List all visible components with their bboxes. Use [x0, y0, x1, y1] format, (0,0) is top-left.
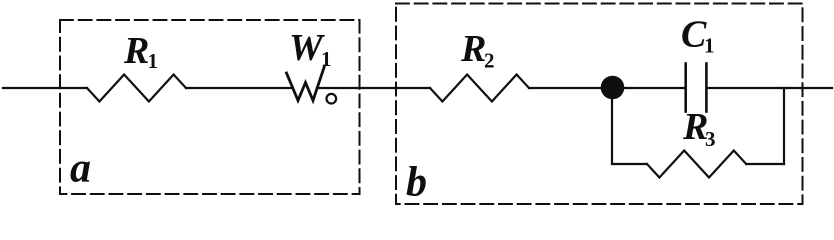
wire R1 to W1 [186, 87, 293, 89]
svg-text:3: 3 [705, 127, 716, 151]
capacitor C1 right plate [705, 64, 708, 112]
resistor R2 [430, 75, 529, 102]
svg-text:b: b [406, 160, 427, 206]
capacitor C1 left plate [684, 64, 687, 112]
svg-text:1: 1 [704, 34, 715, 58]
wire node to C1 [613, 87, 685, 89]
svg-text:2: 2 [484, 49, 495, 73]
Warburg element W1 [287, 66, 325, 101]
svg-text:1: 1 [321, 47, 332, 71]
node junction dot [601, 76, 625, 100]
dashed box a [60, 20, 360, 194]
wire right vertical up [783, 88, 785, 164]
wire bottom right [746, 163, 784, 165]
resistor R1 [87, 75, 186, 102]
svg-text:1: 1 [148, 49, 159, 73]
dashed box b [396, 4, 803, 205]
wire R2 to node [529, 87, 613, 89]
wire bottom left [612, 163, 647, 165]
wire node down [611, 88, 613, 164]
Warburg W1 subscript circle [327, 94, 337, 104]
wire left lead [3, 87, 87, 89]
wire W1 to R2 [317, 87, 430, 89]
wire C1 to right lead [708, 87, 833, 89]
svg-text:R: R [123, 30, 149, 72]
svg-text:R: R [460, 28, 486, 70]
svg-text:a: a [70, 146, 91, 192]
resistor R3 [647, 151, 746, 178]
